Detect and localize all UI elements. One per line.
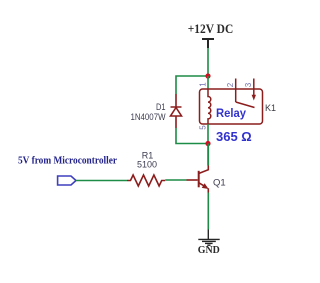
wire junction into relay top [207, 76, 209, 89]
relay contact pin 3 stub with arrow [253, 79, 255, 97]
power bar symbol [202, 39, 214, 48]
svg-text:1N4007W: 1N4007W [131, 112, 166, 122]
resistor R1 [127, 175, 165, 186]
relay contact pin 2 stub [235, 79, 237, 103]
wire port to resistor [76, 180, 127, 182]
svg-text:Q1: Q1 [213, 178, 226, 189]
svg-text:GND: GND [198, 245, 220, 256]
relay K1 box [200, 89, 263, 124]
wire emitter to ground [207, 193, 209, 230]
ground symbol [198, 230, 219, 246]
relay switch blade [236, 102, 255, 108]
svg-text:K1: K1 [265, 103, 276, 113]
wire from +12V to junction [207, 48, 209, 76]
svg-text:Relay: Relay [216, 108, 247, 120]
diode D1 [171, 94, 182, 128]
svg-text:365 Ω: 365 Ω [216, 129, 252, 144]
node junction top [205, 73, 210, 78]
svg-text:3: 3 [244, 82, 253, 87]
svg-text:2: 2 [226, 82, 235, 87]
wire junction to diode branch [176, 76, 208, 94]
wire relay bottom to collector [207, 124, 209, 166]
relay coil [208, 89, 211, 124]
transistor Q1 [187, 166, 209, 193]
svg-text:+12V DC: +12V DC [188, 21, 234, 36]
wire diode bottom to junction [176, 128, 208, 144]
svg-text:5: 5 [199, 125, 208, 130]
svg-text:5100: 5100 [137, 160, 157, 170]
node junction bottom [205, 141, 210, 146]
svg-text:1: 1 [199, 82, 208, 87]
wire collector up [207, 144, 209, 166]
wire resistor to base [165, 179, 186, 181]
svg-text:5V from Microcontroller: 5V from Microcontroller [18, 156, 117, 167]
svg-text:D1: D1 [156, 102, 166, 112]
port 5V input [58, 176, 76, 185]
